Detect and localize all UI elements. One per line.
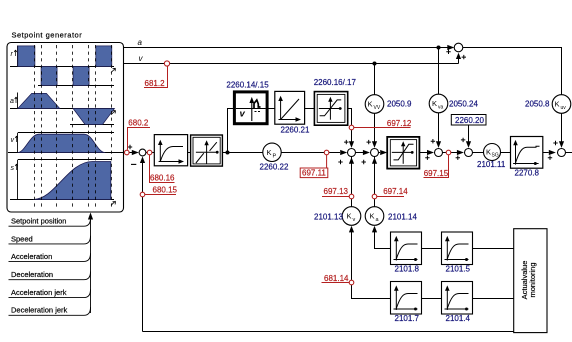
red wire 697.14	[377, 196, 404, 198]
red wire 697.11	[326, 155, 328, 168]
svg-text:Setpoint position: Setpoint position	[11, 217, 66, 226]
summing junction sum3	[371, 149, 379, 157]
svg-text:2101.5: 2101.5	[446, 265, 471, 274]
svg-text:K: K	[432, 99, 437, 108]
wire v up into top sum	[458, 55, 460, 64]
wire Ksg to block 2270.8	[501, 152, 511, 154]
wire 2101.8 up into Ka	[375, 231, 391, 249]
svg-text:Acceleration: Acceleration	[11, 252, 52, 261]
wire 2260.20 down into sum5	[468, 125, 470, 142]
svg-text:monitoring: monitoring	[528, 262, 537, 297]
wire limiter C to sum4	[419, 152, 427, 154]
position subplot axis	[10, 160, 116, 206]
svg-text:K: K	[347, 212, 352, 221]
svg-text:K: K	[368, 100, 373, 109]
svg-text:VV: VV	[374, 105, 381, 111]
svg-text:a: a	[10, 98, 14, 105]
svg-text:2101.13: 2101.13	[314, 213, 343, 222]
velocity label v	[11, 136, 18, 144]
velocity curve fill	[18, 134, 106, 152]
wire Kuv down into sum6	[561, 113, 563, 142]
jerk pulse 1	[18, 46, 35, 67]
svg-text:P: P	[273, 154, 277, 160]
wire 2101.7 up into Kv	[352, 231, 391, 299]
wire feedback into sum1 from below	[142, 160, 144, 332]
gain Kp	[263, 143, 281, 161]
block 2270.8 speed setpoint filter	[511, 137, 543, 169]
jerk pulse 2	[41, 67, 57, 86]
svg-text:697.11: 697.11	[302, 169, 326, 178]
legend row 3 Acceleration	[9, 252, 91, 262]
summing junction sum6	[558, 149, 566, 157]
block dead-zone (double border)	[191, 135, 223, 166]
wire s output to sum1	[124, 152, 136, 154]
svg-text:Deceleration jerk: Deceleration jerk	[11, 306, 68, 315]
block 2260.14/.15 precontrol (thick border)	[234, 92, 267, 124]
summing junction sum5	[465, 149, 473, 157]
wire sum3 down to Ka	[374, 157, 376, 207]
summing junction sum1 position error	[139, 149, 146, 156]
red node 697.11	[324, 150, 329, 155]
summing junction top (a+v)	[454, 43, 463, 52]
svg-text:2260.22: 2260.22	[260, 163, 289, 172]
svg-text:va: va	[438, 105, 444, 111]
node precontrol tap	[226, 151, 230, 155]
actual value monitoring box	[514, 229, 547, 333]
svg-text:SG: SG	[492, 153, 499, 159]
svg-text:680.15: 680.15	[153, 185, 178, 194]
red node 680.16	[147, 150, 152, 155]
accel trapezoid down	[73, 109, 114, 125]
svg-text:2050.8: 2050.8	[525, 100, 550, 109]
svg-text:Setpoint generator: Setpoint generator	[12, 31, 83, 40]
wire sum2 down to Kv	[351, 157, 353, 207]
velocity subplot axis	[8, 133, 124, 153]
svg-text:697.13: 697.13	[324, 187, 349, 196]
red wire 681.14	[322, 282, 350, 284]
red wire 681.2	[144, 66, 168, 88]
node a-Kva tap	[437, 46, 441, 50]
svg-text:681.2: 681.2	[145, 79, 166, 88]
svg-text:2050.24: 2050.24	[449, 100, 478, 109]
legend row 1 Setpoint position	[9, 217, 91, 227]
red wire 680.2	[128, 128, 151, 150]
svg-text:Speed: Speed	[11, 234, 33, 243]
block 2101.8 filter	[391, 232, 422, 265]
wire sum5 to Ksg	[473, 152, 484, 154]
gain Kvv	[365, 95, 384, 114]
setpoint generator box	[7, 31, 124, 212]
accel trapezoid up	[18, 93, 60, 108]
block 2260.21 ramp	[275, 91, 305, 124]
svg-text:K: K	[370, 212, 375, 221]
jerk subplot axis	[10, 46, 116, 86]
svg-text:681.14: 681.14	[324, 274, 349, 283]
svg-text:uv: uv	[561, 105, 567, 111]
gain Ka	[365, 207, 384, 226]
svg-text:2101.4: 2101.4	[446, 314, 471, 323]
red node 681.2	[164, 61, 169, 66]
position s-curve fill	[33, 162, 111, 200]
wire block B to Kp with branch node	[222, 152, 262, 154]
svg-text:2260.21: 2260.21	[281, 126, 310, 135]
red wire 680.15	[145, 194, 176, 196]
wire top sum to Kuv	[463, 48, 562, 95]
arrow a into top sum	[447, 45, 454, 50]
box 2260.20	[451, 115, 486, 126]
red label 697.11 boxed	[300, 168, 328, 178]
red node 697.14	[372, 194, 377, 199]
svg-text:a: a	[138, 38, 143, 47]
red wire 680.16	[150, 155, 175, 183]
wire a tap down to Kva	[438, 48, 440, 95]
svg-text:2101.14: 2101.14	[388, 213, 417, 222]
svg-text:2101.11: 2101.11	[477, 160, 506, 169]
wire sum4 to sum5	[442, 152, 457, 154]
svg-text:2050.9: 2050.9	[387, 100, 412, 109]
svg-text:2260.14/.15: 2260.14/.15	[226, 81, 269, 90]
svg-text:697.15: 697.15	[424, 169, 449, 178]
red wire 697.15	[424, 155, 449, 178]
node v-Kvv tap	[373, 62, 377, 66]
wire actual value box to 2101.5	[473, 248, 514, 250]
block 2101.4 filter	[442, 282, 473, 315]
wire sum3 to limiter C	[378, 152, 380, 154]
summing junction sum4	[435, 149, 443, 157]
red wire 697.12	[354, 127, 411, 129]
jerk pulse 4	[96, 46, 112, 67]
dashed time grid lines	[35, 45, 112, 209]
block 2260.3 smoothing (exp curve)	[154, 135, 187, 166]
wire actual value box to 2101.4	[473, 298, 514, 300]
wire sum1 to block A	[146, 152, 154, 154]
wire Kvv down into sum3	[374, 113, 376, 142]
svg-text:2101.7: 2101.7	[395, 314, 420, 323]
svg-text:2260.16/.17: 2260.16/.17	[314, 78, 357, 87]
legend row 5 Acceleration jerk	[9, 288, 91, 298]
wire limiter down to sum2	[348, 109, 352, 142]
legend row 6 Deceleration jerk	[9, 306, 91, 316]
wire 2270.8 to sum6	[543, 152, 549, 154]
position label s	[11, 164, 18, 172]
svg-text:v: v	[11, 137, 15, 144]
legend row 4 Deceleration	[9, 270, 91, 280]
wire tap up to precontrol block	[228, 109, 235, 153]
block 2260.16/.17 limiter (double border)	[314, 92, 347, 126]
svg-text:v: v	[353, 217, 356, 223]
red node 681.14	[349, 280, 354, 285]
wire sum2 to sum3	[355, 152, 363, 154]
red wire 697.13	[322, 196, 349, 198]
wire precontrol to ramp block	[268, 108, 275, 110]
svg-text:s: s	[11, 165, 15, 172]
red node 697.13	[349, 194, 354, 199]
summing junction sum2	[348, 149, 356, 157]
red node 680.2	[125, 150, 130, 155]
accel subplot axis	[10, 93, 116, 125]
svg-text:697.12: 697.12	[387, 119, 412, 128]
svg-text:2260.20: 2260.20	[455, 116, 484, 125]
legend riser wire into box	[88, 213, 93, 314]
wire v tap down to Kvv	[374, 64, 376, 95]
svg-text:K: K	[486, 148, 491, 157]
gain Ksg	[484, 144, 501, 161]
svg-text:680.2: 680.2	[128, 118, 149, 127]
svg-text:v: v	[240, 109, 246, 120]
wire 2101.4 to 2101.7	[422, 298, 442, 300]
svg-text:Acceleration jerk: Acceleration jerk	[11, 288, 67, 297]
svg-text:680.16: 680.16	[150, 173, 175, 182]
wire ramp to limiter block	[305, 108, 316, 110]
wire a line	[124, 47, 450, 49]
jerk label r	[11, 50, 17, 58]
wire block A to block B	[188, 152, 191, 154]
red node 680.15	[140, 192, 145, 197]
gain Kuv	[552, 95, 571, 114]
wire Kva down into sum4	[438, 113, 440, 142]
wire 2101.5 to 2101.8	[422, 248, 442, 250]
block speed limiter C (double border)	[387, 137, 419, 169]
wire bottom feedback line	[143, 331, 514, 333]
svg-text:697.14: 697.14	[383, 187, 408, 196]
block 2101.7 filter	[391, 282, 422, 315]
wire sum6 output to edge	[566, 152, 572, 154]
svg-text:K: K	[555, 100, 560, 109]
red node 697.15	[446, 150, 451, 155]
gain Kva	[429, 94, 448, 113]
svg-text:K: K	[267, 148, 272, 157]
svg-text:Deceleration: Deceleration	[11, 270, 53, 279]
svg-text:2101.8: 2101.8	[395, 265, 420, 274]
red node 697.12	[349, 125, 354, 130]
wire Kp to sum2	[281, 152, 340, 154]
accel label a	[10, 97, 17, 105]
legend row 2 Speed	[9, 234, 91, 244]
gain Kv	[342, 207, 361, 226]
jerk pulse 3	[73, 67, 89, 86]
block 2101.5 filter	[442, 232, 473, 265]
svg-text:2270.8: 2270.8	[515, 169, 540, 178]
wire v line	[124, 63, 459, 65]
